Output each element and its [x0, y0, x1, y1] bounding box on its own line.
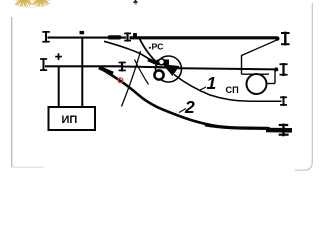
svg-text:ИП: ИП	[62, 114, 78, 126]
svg-text:СП: СП	[226, 85, 239, 95]
svg-text:2: 2	[184, 97, 195, 117]
svg-text:РС: РС	[152, 41, 165, 51]
svg-text:1: 1	[207, 73, 217, 93]
